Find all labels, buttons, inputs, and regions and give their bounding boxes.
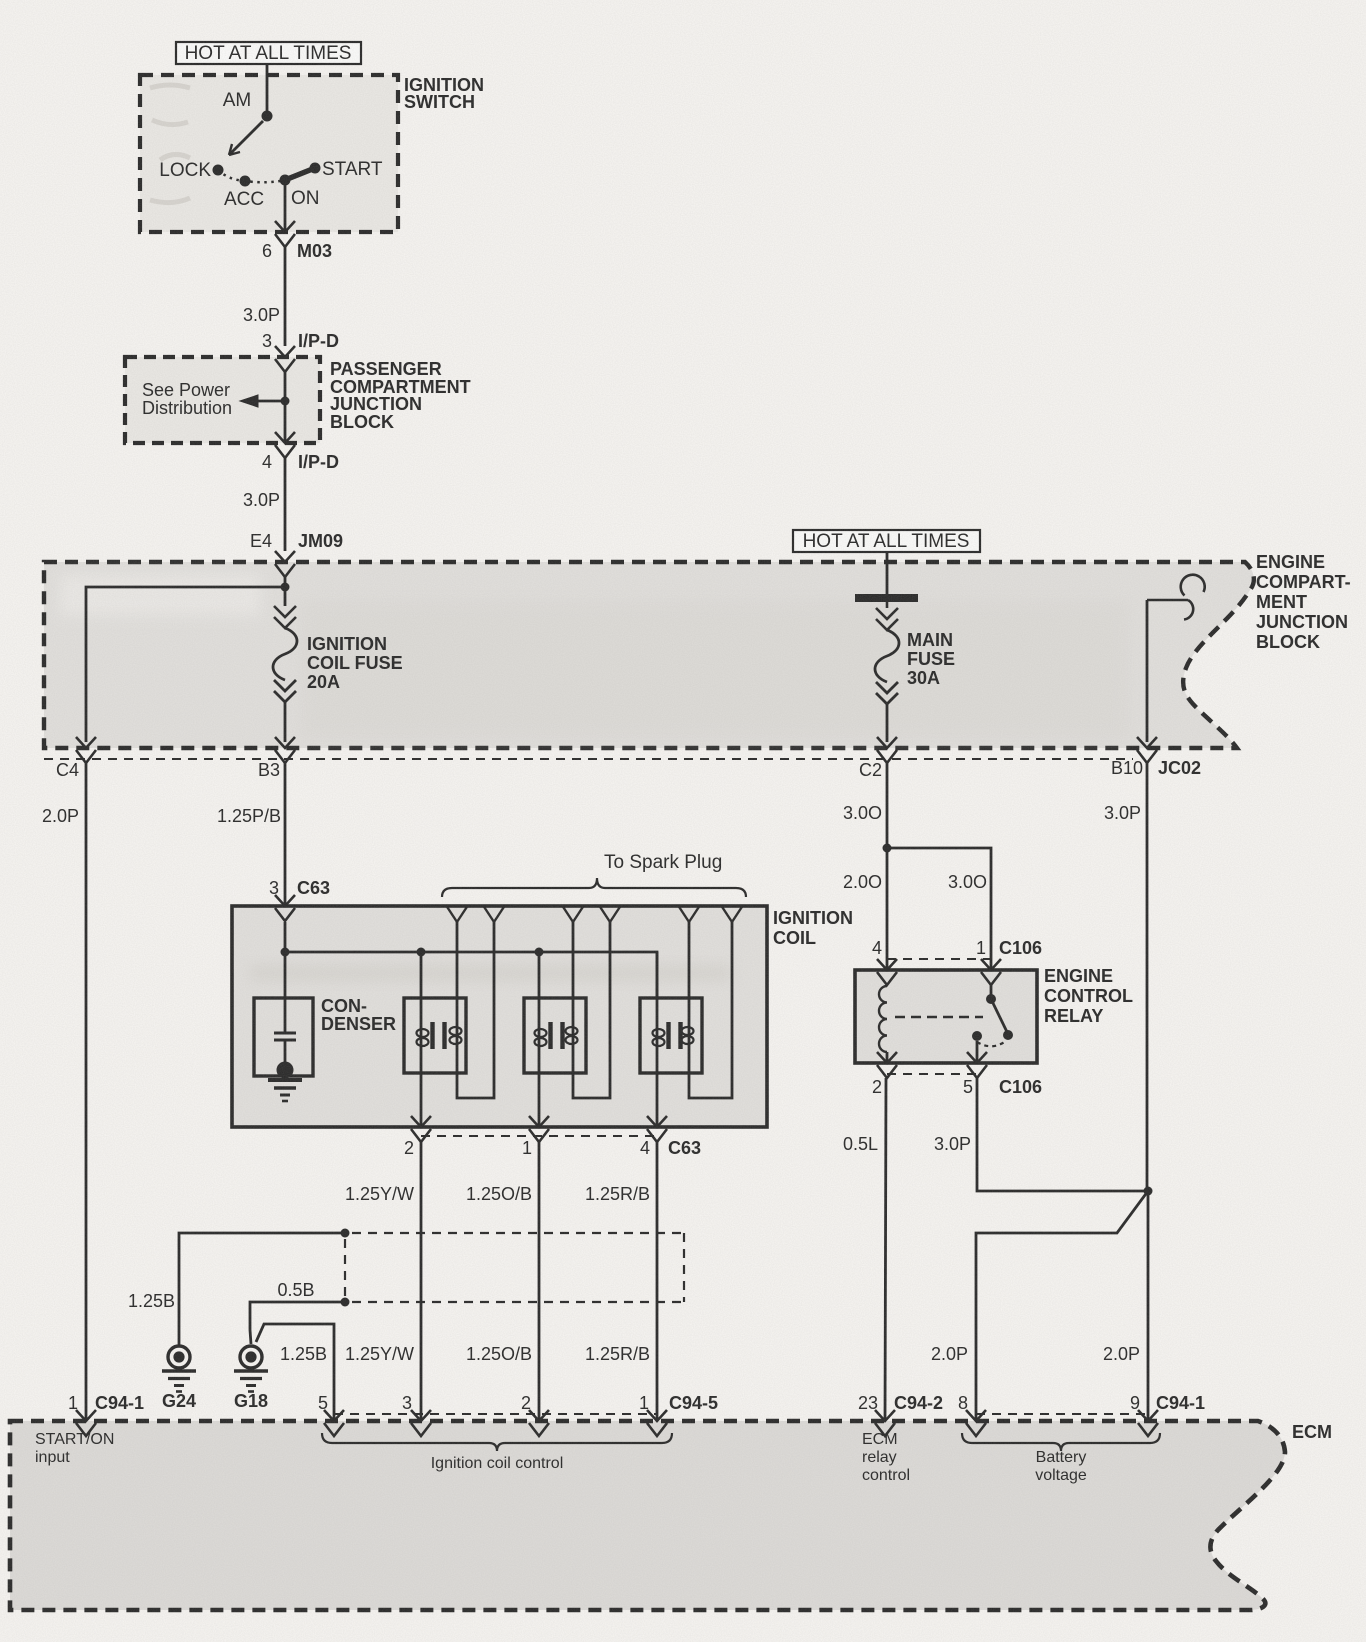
wire from main fuse to pin C2 [886,704,889,742]
ground G18 [240,1346,262,1368]
junction node relay feed split [883,844,892,853]
bus bar (solid block) above main fuse [855,594,918,602]
ECM connector C94-5 pin 1 [647,1410,667,1421]
fuse: IGNITION COIL FUSE 20A [274,606,296,617]
ECM connector C94-5 pin 3 [411,1410,431,1421]
coil unit 3 primary winding [656,952,659,1127]
junction node shield drain upper [341,1229,350,1238]
wire: coil pin 1 to ECM pin 2, gauge 1.25O/B [538,1142,541,1421]
wire: C4 to ECM pin 1, gauge 2.0P [85,763,88,1421]
wire: M03 to I/P-D pin 3, gauge 3.0P [284,247,287,346]
wire: coil pin 4 to ECM pin 1, gauge 1.25R/B [656,1142,659,1421]
relay coil [879,986,887,1052]
wire: coil pin 2 to ECM pin 3, gauge 1.25Y/W [420,1142,423,1421]
ECM dashed outline with torn right edge [10,1421,1285,1610]
brace Ignition coil control [322,1433,672,1451]
engine control relay box [855,970,1037,1063]
brace Battery voltage [962,1433,1160,1451]
wire: ON terminal down to connector M03 [284,180,287,231]
wire into ignition coil fuse [284,587,287,606]
spark plug terminal 4 on coil box top edge [600,906,621,922]
coil unit 3 secondary winding to spark plug terminals [688,922,691,1050]
wire: relay pin 2 to ECM pin 23, gauge 0.5L [885,1078,886,1421]
connector C63 coil box bottom pin 1 [529,1116,549,1127]
spark plug terminal 2 on coil box top edge [484,906,505,922]
connector strip dashed line C63 [421,1135,657,1137]
relay mechanical link dashed [895,1016,983,1019]
spark plug terminal 5 on coil box top edge [679,906,700,922]
ECM connector C94-1 pin 1 [76,1410,96,1421]
wire: branch to relay pin 1, gauge 3.0O [887,848,991,969]
relay switch contacts [990,984,993,999]
faint scan streaks in junction block [300,600,1130,740]
wire: JC02 to ECM pin 9, gauge 3.0P [1146,763,1149,1191]
wire: branch left to C4 [86,587,285,742]
ground G24 [168,1346,190,1368]
coil unit 1 secondary winding to spark plug terminals [456,922,459,1050]
connector strip dashed line C94-1 battery [976,1413,1148,1415]
wire through junction block with branch arrow to power distribution [284,372,287,443]
faint scan ghost marks in switch box [150,85,190,203]
label box HOT AT ALL TIMES (ignition switch feed) [176,42,361,64]
ECM connector C94-1 pin 8 [966,1410,986,1421]
condenser capacitor element [284,952,287,1033]
connector C63 coil box bottom pin 2 [411,1116,431,1127]
wire: G24 ground lead, gauge 1.25B [179,1233,345,1345]
fuse: MAIN FUSE 30A [876,608,898,619]
wire: battery node to ECM pin 8, gauge 2.0P [976,1191,1148,1421]
ECM connector C94-2 pin 23 [875,1410,895,1421]
junction node shield drain lower [341,1298,350,1307]
coil unit 1 primary winding [420,952,423,1127]
spark plug terminal 6 on coil box top edge [722,906,743,922]
connector pin B3 at junction block bottom [275,737,295,748]
wire: B3 to ignition coil pin 3, gauge 1.25P/B [284,763,287,906]
wire: battery feed into junction block [886,551,889,594]
passenger compartment junction block dashed box [125,357,320,443]
ignition coil box [232,906,767,1127]
label box HOT AT ALL TIMES (main fuse feed) [793,530,980,552]
connector C106 pins 4 and 1 into relay [877,959,897,970]
condenser box [254,998,313,1076]
coil unit 1 core [430,1022,434,1049]
shield dashed box around ignition coil control wires [352,1232,684,1234]
connector M03 pin 6 [275,221,295,232]
faint scan ghost band in coil box [250,965,730,981]
internal supply bus of ignition coil [285,922,657,998]
relay bottom pins 2 and 5 [877,1052,897,1063]
ECM connector C94-1 pin 9 [1138,1410,1158,1421]
wire: relay pin 5 toward battery node, gauge 3.0P [977,1078,1148,1191]
connector strip dashed line C94-5 [334,1413,657,1415]
connector pin C4 at junction block bottom [76,737,96,748]
connector C63 coil box bottom pin 4 [647,1116,667,1127]
ECM connector C94-5 pin 5 [324,1410,344,1421]
ignition coil unit 2 box [524,998,586,1073]
coil unit 2 secondary winding to spark plug terminals [572,922,575,1050]
engine compartment junction block dashed outline with torn right edge [44,562,1254,748]
thick contact bar ON-START [285,168,315,180]
ignition switch dashed box [140,75,398,232]
wire: G18 ground lead, gauge 0.5B [250,1302,345,1344]
ECM connector C94-5 pin 2 [529,1410,549,1421]
ignition coil unit 1 box [404,998,466,1073]
connector C63 pin 3 into ignition coil [275,895,295,906]
coil unit 3 core [666,1022,670,1049]
dotted detent path LOCK-ACC-ON [218,170,285,182]
coil unit 2 core [548,1022,552,1049]
continuation squiggle inside junction block (JC02 feed) [1147,599,1188,602]
wire: I/P-D to JM09, gauge 3.0P [284,458,287,551]
connector I/P-D pin 4 out of passenger junction block [275,432,295,443]
connector strip dashed line C106 top [887,958,991,960]
junction node in engine compartment junction block [281,583,290,592]
spark plug terminal 1 on coil box top edge [447,906,468,922]
connector strip dashed line C106 bottom [887,1073,977,1075]
connector strip thin dashed line under junction block [44,758,1133,760]
wire: junction block to pin B10 [1146,600,1149,742]
wire from JM09 to internal junction node [284,577,287,588]
connector JM09 pin E4 into engine compartment junction block [275,551,295,562]
wire: C2 to engine control relay, gauge 3.0O [886,763,889,971]
connector pin B10 / JC02 at junction block bottom [1137,737,1157,748]
wire from fuse to pin B3 [284,702,287,742]
connector pin C2 at junction block bottom [877,737,897,748]
ignition coil unit 3 box [640,998,702,1073]
connector I/P-D pin 3 into passenger compartment junction block [275,346,295,357]
junction node battery voltage split [1144,1187,1153,1196]
ignition switch internals [262,111,273,122]
condenser internal ground [277,1062,294,1079]
wire: HOT feed into ignition switch AM terminal [266,64,269,116]
spark plug terminal 3 on coil box top edge [563,906,584,922]
wire: G18 second lead to ECM pin 5, gauge 1.25B [256,1324,334,1421]
coil unit 2 primary winding [538,952,541,1127]
